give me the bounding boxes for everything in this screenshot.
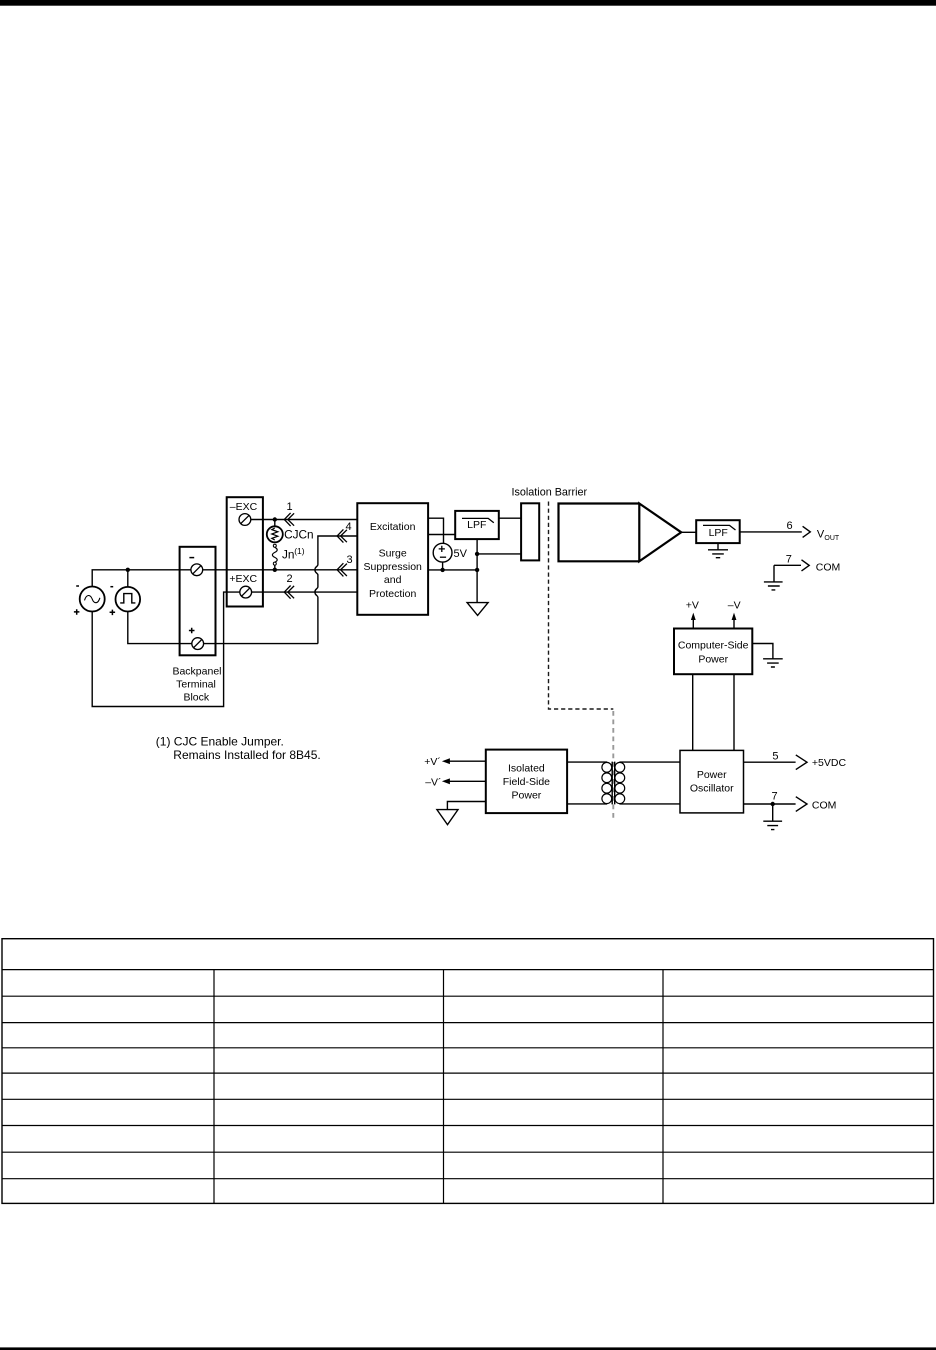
svg-text:(1) CJC Enable Jumper.: (1) CJC Enable Jumper. (156, 735, 284, 749)
svg-text:Power: Power (697, 769, 727, 781)
svg-text:and: and (384, 574, 402, 586)
svg-text:5: 5 (772, 751, 778, 763)
svg-text:–V: –V (728, 599, 741, 611)
svg-text:Backpanel: Backpanel (172, 666, 221, 678)
svg-text:Surge: Surge (379, 547, 407, 559)
svg-text:+5VDC: +5VDC (812, 757, 847, 769)
svg-text:7: 7 (771, 791, 777, 803)
svg-text:+V: +V (686, 599, 699, 611)
svg-text:Suppression: Suppression (364, 561, 423, 573)
svg-text:Excitation: Excitation (370, 521, 416, 533)
svg-text:4: 4 (345, 521, 351, 533)
svg-text:6: 6 (786, 520, 792, 532)
svg-text:Isolation Barrier: Isolation Barrier (512, 487, 588, 499)
svg-text:Isolated: Isolated (508, 762, 545, 774)
svg-text:+V´: +V´ (424, 756, 441, 768)
svg-text:OUT: OUT (824, 535, 840, 542)
svg-text:CJCn: CJCn (284, 528, 314, 542)
svg-text:Protection: Protection (369, 588, 416, 600)
svg-text:–V´: –V´ (425, 776, 441, 788)
svg-text:Computer-Side: Computer-Side (678, 640, 749, 652)
svg-text:7: 7 (786, 554, 792, 566)
svg-text:5V: 5V (454, 548, 468, 560)
svg-text:Block: Block (183, 692, 209, 704)
svg-text:LPF: LPF (709, 527, 728, 539)
svg-text:LPF: LPF (467, 519, 486, 531)
svg-text:2: 2 (287, 573, 293, 585)
svg-text:Terminal: Terminal (176, 679, 216, 691)
svg-text:+EXC: +EXC (229, 573, 257, 585)
svg-text:COM: COM (816, 561, 841, 573)
svg-text:(1): (1) (294, 546, 305, 556)
svg-text:Field-Side: Field-Side (503, 776, 550, 788)
svg-text:Power: Power (512, 790, 542, 802)
svg-text:Jn: Jn (282, 548, 294, 562)
svg-text:Power: Power (698, 654, 728, 666)
svg-text:Oscillator: Oscillator (690, 782, 734, 794)
svg-text:1: 1 (286, 501, 292, 513)
svg-text:COM: COM (812, 800, 837, 812)
svg-text:–EXC: –EXC (230, 501, 258, 513)
svg-text:3: 3 (346, 554, 352, 566)
svg-text:Remains Installed for 8B45.: Remains Installed for 8B45. (173, 748, 320, 762)
